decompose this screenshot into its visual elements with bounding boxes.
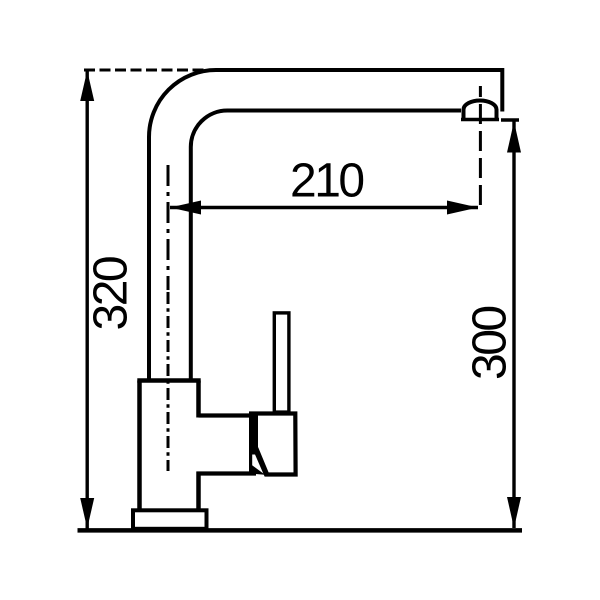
handle lever bar — [274, 313, 289, 412]
dimension 320 line — [85, 71, 88, 529]
dimension 300 extension tick — [501, 118, 519, 121]
dimension 300 bottom arrowhead — [507, 497, 521, 528]
riser centerline (dash-dot) — [167, 165, 170, 290]
faucet inner profile (riser right edge, inner bend, spout underside) — [191, 111, 461, 382]
cartridge left edge lower thin line — [249, 449, 252, 472]
base plate — [133, 510, 207, 529]
outlet centerline (dashed through dome) — [479, 86, 482, 209]
body left edge — [137, 381, 142, 511]
dimension 210 line — [170, 206, 478, 209]
svg-text:300: 300 — [464, 307, 517, 380]
cartridge lower-left filled wedge — [250, 464, 265, 475]
faucet outer profile (left riser, bend, spout top, spout right edge) — [149, 70, 502, 381]
dimension 300 line — [512, 122, 515, 529]
valve housing bottom edge — [197, 471, 257, 475]
svg-text:210: 210 — [290, 155, 363, 208]
handle cartridge body (quadrilateral right of valve) — [252, 414, 296, 475]
body right edge upper — [196, 381, 201, 418]
spout outlet dome (aerator head) — [464, 101, 497, 120]
cartridge thick left bar — [249, 412, 258, 455]
svg-text:320: 320 — [85, 257, 138, 330]
dimension 320 top arrowhead — [80, 71, 94, 102]
dimension 320 bottom arrowhead — [80, 498, 94, 529]
top reference dashed line — [84, 69, 213, 72]
dimension 300 top arrowhead — [507, 122, 521, 153]
dimension 210 right arrowhead — [447, 201, 478, 215]
outlet base line — [461, 118, 499, 121]
dimension 210 left arrowhead — [170, 201, 201, 215]
counter / ground line — [78, 528, 523, 533]
faucet body shoulder — [137, 378, 200, 383]
cartridge diagonal notch line — [257, 448, 268, 475]
body right edge lower — [196, 472, 201, 511]
riser centerline lower part — [167, 292, 170, 471]
valve housing top edge — [199, 413, 255, 417]
